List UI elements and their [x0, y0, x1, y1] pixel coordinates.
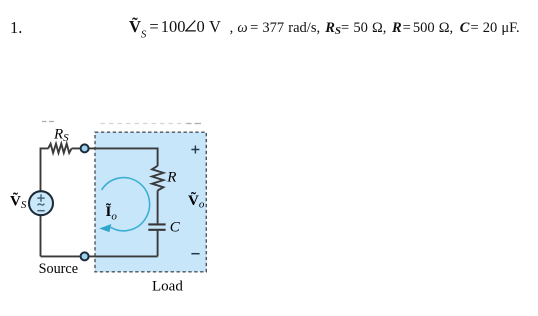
stray darker dashes right — [187, 123, 202, 125]
source tilde symbol — [38, 204, 45, 206]
capacitor C bottom plate — [148, 229, 165, 231]
node (bottom) — [81, 252, 89, 260]
wire: R to capacitor top plate — [157, 191, 159, 224]
svg-text:R: R — [166, 170, 176, 186]
svg-text:Source: Source — [39, 261, 78, 277]
svg-text:ṼS: ṼS — [10, 192, 27, 212]
problem number 1. — [10, 18, 22, 38]
svg-text:RS: RS — [53, 126, 69, 144]
wire: RS to node to branch corner, down to R — [72, 148, 158, 166]
resistor RS (horizontal zigzag) — [48, 144, 71, 153]
wire: bottom rail — [41, 255, 158, 257]
current loop Io arc — [102, 178, 150, 231]
wire: top-left corner and left vertical — [41, 148, 49, 256]
minus sign (load) — [191, 253, 199, 255]
svg-text:Load: Load — [152, 278, 183, 294]
node (top) — [81, 144, 89, 152]
resistor R (vertical zigzag) — [152, 166, 163, 191]
plus sign (load) — [191, 146, 199, 154]
wire: capacitor to bottom rail — [157, 231, 159, 257]
stray faint dash cluster — [42, 121, 54, 123]
capacitor C top plate — [148, 223, 165, 225]
load region (blue fill + dashed border) — [95, 132, 206, 272]
svg-text:C: C — [170, 220, 181, 236]
source minus symbol — [37, 210, 44, 212]
stray faint dashed line — [101, 123, 203, 125]
given values formula — [129, 20, 520, 42]
source plus symbol — [37, 194, 44, 201]
voltage source VS circle — [29, 191, 53, 215]
current loop arrowhead — [99, 224, 111, 232]
